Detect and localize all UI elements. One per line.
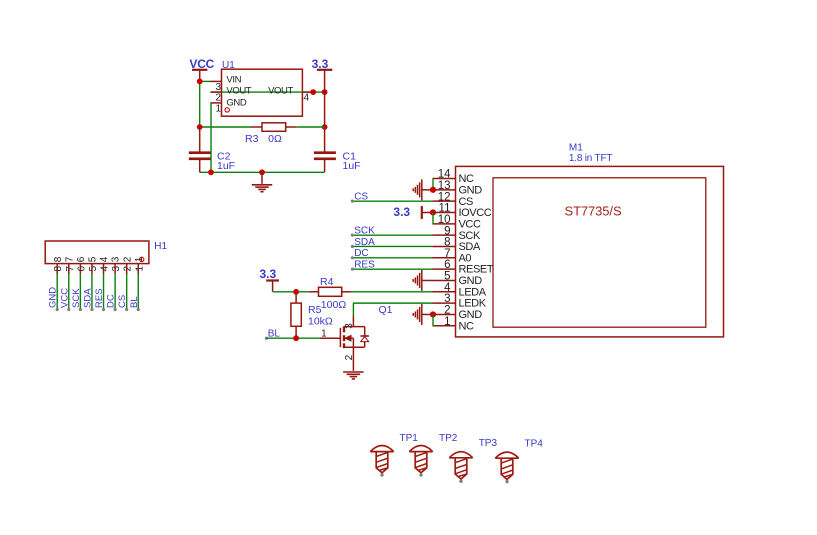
svg-text:SCK: SCK (71, 288, 82, 308)
svg-text:RES: RES (94, 288, 105, 308)
svg-text:8: 8 (53, 256, 64, 262)
svg-text:ST7735/S: ST7735/S (565, 204, 622, 219)
svg-text:3: 3 (111, 256, 122, 262)
svg-text:2: 2 (444, 305, 450, 317)
svg-text:3.3: 3.3 (393, 205, 410, 219)
svg-text:6: 6 (444, 259, 450, 271)
svg-text:4: 4 (444, 282, 451, 294)
svg-text:13: 13 (438, 180, 451, 192)
svg-text:GND: GND (459, 309, 483, 321)
svg-text:2: 2 (123, 266, 134, 272)
svg-text:DC: DC (106, 294, 117, 308)
svg-text:R4: R4 (320, 276, 334, 288)
svg-text:2: 2 (122, 256, 133, 262)
svg-text:1.8 in TFT: 1.8 in TFT (569, 153, 612, 164)
svg-text:IOVCC: IOVCC (459, 207, 492, 219)
svg-text:BL: BL (129, 296, 140, 308)
svg-text:SDA: SDA (459, 241, 481, 253)
svg-text:TP1: TP1 (400, 433, 419, 444)
svg-text:Q1: Q1 (379, 304, 393, 316)
svg-text:4: 4 (100, 266, 111, 272)
svg-text:R5: R5 (308, 304, 322, 316)
svg-text:14: 14 (438, 169, 451, 181)
svg-text:RES: RES (354, 259, 375, 270)
svg-text:TP2: TP2 (439, 433, 458, 444)
svg-text:2: 2 (215, 93, 221, 104)
svg-text:SCK: SCK (459, 230, 481, 242)
svg-text:LEDA: LEDA (459, 286, 487, 298)
svg-text:8: 8 (444, 237, 450, 249)
svg-text:3: 3 (344, 323, 355, 329)
svg-text:1: 1 (215, 103, 221, 114)
svg-text:3: 3 (111, 266, 122, 272)
svg-text:1uF: 1uF (217, 160, 235, 172)
svg-text:0Ω: 0Ω (268, 133, 282, 145)
svg-text:GND: GND (459, 184, 483, 196)
svg-text:SDA: SDA (82, 288, 93, 308)
svg-text:4: 4 (304, 93, 310, 104)
svg-text:VIN: VIN (226, 75, 241, 86)
svg-text:R3: R3 (245, 133, 259, 145)
svg-text:7: 7 (444, 248, 450, 260)
svg-text:GND: GND (48, 287, 59, 308)
svg-text:12: 12 (438, 191, 451, 203)
svg-text:5: 5 (88, 266, 99, 272)
svg-text:U1: U1 (222, 60, 235, 71)
svg-text:VCC: VCC (59, 288, 70, 308)
svg-text:CS: CS (459, 196, 474, 208)
svg-text:6: 6 (76, 256, 87, 262)
svg-text:7: 7 (65, 266, 76, 272)
svg-text:H1: H1 (154, 241, 167, 252)
svg-text:TP4: TP4 (525, 439, 544, 450)
svg-text:2: 2 (344, 354, 355, 360)
svg-text:1uF: 1uF (343, 160, 361, 172)
svg-text:VOUT: VOUT (268, 86, 293, 97)
svg-text:5: 5 (88, 256, 99, 262)
svg-text:CS: CS (354, 191, 368, 202)
svg-text:1: 1 (321, 329, 327, 340)
svg-text:1: 1 (134, 266, 145, 272)
svg-text:RESET: RESET (459, 264, 494, 276)
svg-text:TP3: TP3 (479, 438, 498, 449)
svg-text:NC: NC (459, 173, 475, 185)
svg-text:GND: GND (226, 98, 246, 109)
svg-text:10kΩ: 10kΩ (308, 315, 333, 327)
svg-text:LEDK: LEDK (459, 298, 487, 310)
svg-text:DC: DC (354, 248, 368, 259)
svg-text:1: 1 (134, 256, 145, 262)
svg-text:5: 5 (444, 271, 450, 283)
svg-text:GND: GND (459, 275, 483, 287)
svg-text:11: 11 (439, 203, 451, 215)
svg-text:7: 7 (64, 256, 75, 262)
svg-text:100Ω: 100Ω (321, 299, 347, 311)
svg-text:4: 4 (99, 256, 110, 262)
svg-text:SCK: SCK (354, 225, 375, 236)
svg-text:6: 6 (76, 266, 87, 272)
svg-text:VCC: VCC (459, 218, 481, 230)
svg-text:10: 10 (438, 214, 451, 226)
svg-text:3: 3 (444, 293, 450, 305)
svg-text:9: 9 (444, 225, 450, 237)
svg-text:NC: NC (459, 320, 475, 332)
svg-text:8: 8 (53, 266, 64, 272)
svg-text:3.3: 3.3 (260, 267, 277, 281)
svg-text:VOUT: VOUT (226, 86, 251, 97)
svg-text:CS: CS (117, 295, 128, 308)
svg-text:A0: A0 (459, 252, 472, 264)
svg-text:1: 1 (444, 316, 450, 328)
svg-text:SDA: SDA (354, 237, 375, 248)
